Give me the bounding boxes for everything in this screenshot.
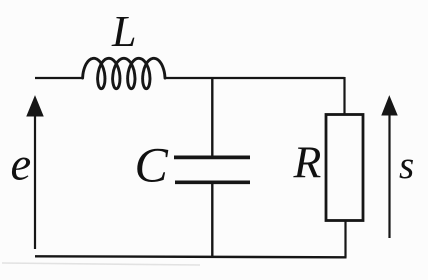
svg-text:C: C (135, 137, 169, 193)
capacitor C1 bottom plate (175, 181, 250, 185)
svg-text:R: R (293, 137, 322, 188)
capacitor C1 top plate (174, 155, 250, 159)
wire capacitor bottom lead (211, 183, 213, 257)
input voltage arrow e shaft (34, 112, 36, 249)
svg-text:s: s (399, 144, 414, 187)
wire bottom rail (35, 256, 347, 257)
wire resistor bottom to bottom rail (344, 220, 346, 258)
wire top segment from inductor to resistor branch (164, 77, 345, 79)
wire capacitor top lead (211, 77, 213, 157)
wire top-left segment (35, 77, 83, 79)
wire (faint scan smudge, decorative) (2, 263, 200, 265)
wire right vertical to resistor top (343, 77, 345, 115)
input voltage arrow e head (27, 97, 43, 117)
svg-text:L: L (111, 7, 136, 56)
inductor L1 coil (83, 58, 165, 88)
resistor R1 body (326, 115, 363, 221)
output voltage arrow s head (382, 97, 397, 116)
svg-text:e: e (11, 140, 32, 191)
output voltage arrow s shaft (388, 112, 390, 238)
